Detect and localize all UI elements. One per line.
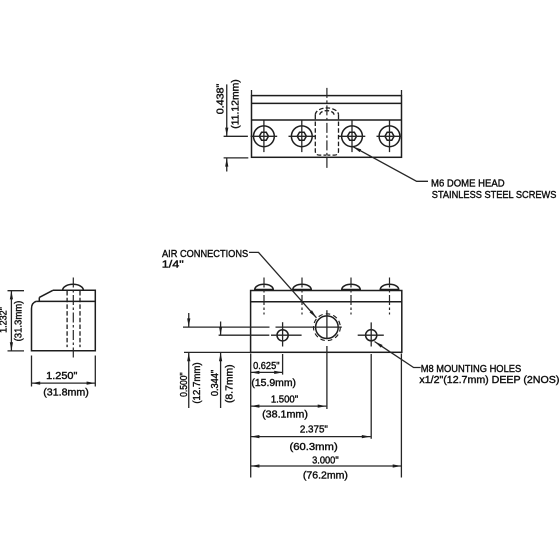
svg-text:1.250": 1.250": [46, 371, 78, 382]
svg-text:AIR CONNECTIONS: AIR CONNECTIONS: [162, 249, 248, 260]
svg-text:2.375": 2.375": [300, 424, 329, 435]
svg-text:(31.3mm): (31.3mm): [14, 301, 25, 342]
svg-text:(11.12mm): (11.12mm): [231, 79, 242, 128]
svg-text:3.000": 3.000": [312, 455, 339, 466]
svg-text:1.232": 1.232": [0, 307, 10, 333]
svg-text:(38.1mm): (38.1mm): [262, 409, 308, 420]
svg-text:1/4": 1/4": [162, 260, 184, 271]
svg-text:x1/2"(12.7mm) DEEP (2NOS): x1/2"(12.7mm) DEEP (2NOS): [419, 375, 559, 386]
svg-text:0.625": 0.625": [253, 361, 280, 372]
svg-text:0.500": 0.500": [179, 372, 190, 397]
svg-text:0.344": 0.344": [210, 369, 221, 396]
svg-text:(8.7mm): (8.7mm): [225, 364, 236, 403]
svg-text:(76.2mm): (76.2mm): [303, 470, 348, 481]
svg-text:M8 MOUNTING HOLES: M8 MOUNTING HOLES: [421, 364, 522, 375]
svg-text:(31.8mm): (31.8mm): [43, 387, 89, 398]
svg-text:0.438": 0.438": [216, 83, 227, 114]
svg-text:(15.9mm): (15.9mm): [251, 378, 296, 389]
svg-text:(60.3mm): (60.3mm): [290, 442, 338, 453]
svg-text:(12.7mm): (12.7mm): [192, 362, 203, 403]
svg-text:1.500": 1.500": [271, 395, 299, 406]
svg-text:STAINLESS STEEL SCREWS: STAINLESS STEEL SCREWS: [432, 190, 557, 201]
svg-text:M6 DOME HEAD: M6 DOME HEAD: [431, 179, 505, 190]
